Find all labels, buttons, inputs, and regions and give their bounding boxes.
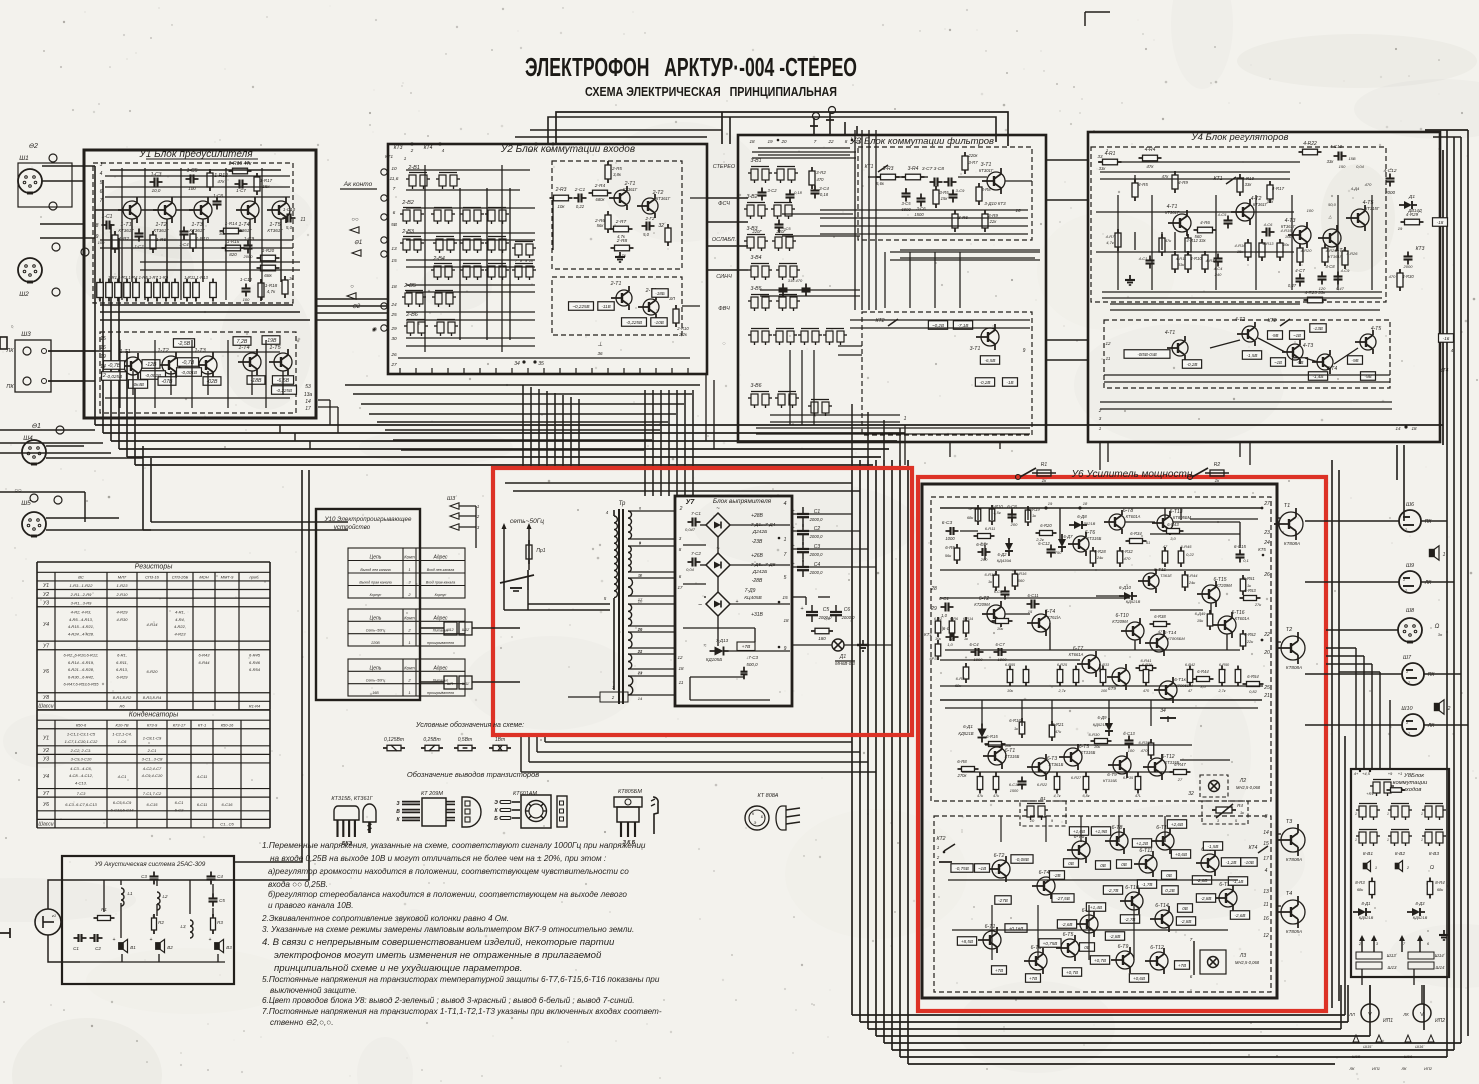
svg-text:электрофонов могут иметь из: электрофонов могут иметь изменения не от… — [274, 950, 602, 961]
capacitor 1-C5 — [189, 175, 191, 184]
svg-text:С3: С3 — [141, 874, 147, 879]
resistor 8-R3 — [1369, 882, 1375, 895]
svg-text:3-Д10 КТ3: 3-Д10 КТ3 — [984, 201, 1006, 206]
svg-text:КД439А: КД439А — [997, 558, 1012, 563]
svg-text:6-С12: 6-С12 — [1038, 541, 1050, 546]
wire top bus 3 — [515, 136, 707, 138]
wire drop vertical 4 — [546, 391, 548, 468]
svg-text:+: + — [989, 655, 992, 660]
svg-text:1-С5: 1-С5 — [187, 168, 198, 174]
resistor 4-R11 — [1172, 255, 1178, 269]
U2 left pin circles — [381, 169, 387, 175]
capacitor 2-C2 — [645, 222, 647, 231]
svg-text:входа ○○ 0,25В.: входа ○○ 0,25В. — [268, 880, 328, 889]
svg-text:6-Д8: 6-Д8 — [1077, 514, 1087, 519]
resistor 6-R16 — [1012, 574, 1018, 586]
wire drop vertical 2 — [530, 387, 532, 468]
svg-text:1Вт: 1Вт — [495, 737, 505, 743]
svg-text:6-R14: 6-R14 — [963, 617, 973, 621]
svg-text:У4: У4 — [43, 622, 49, 628]
svg-text:1-С7: 1-С7 — [236, 188, 246, 193]
svg-text:16В: 16В — [372, 691, 379, 695]
svg-text:~1В: ~1В — [1274, 360, 1282, 365]
svg-text:32: 32 — [1188, 791, 1194, 797]
transistor 6-T6 — [1073, 536, 1089, 552]
svg-text:4,7к: 4,7к — [1053, 794, 1060, 798]
speaker B1 — [119, 943, 123, 950]
svg-text:6-Д7: 6-Д7 — [1063, 534, 1073, 539]
resistor 6-R13 — [993, 575, 999, 587]
rectifier bridge 7-D5..7-D8 — [706, 553, 730, 577]
svg-text:1: 1 — [1403, 516, 1405, 521]
svg-text:КТ361Г: КТ361Г — [656, 196, 671, 201]
svg-text:+7В: +7В — [995, 968, 1003, 973]
svg-text:6Р4: 6Р4 — [968, 506, 976, 511]
svg-text:+: + — [113, 937, 116, 943]
svg-text:0,22: 0,22 — [1186, 552, 1195, 557]
resistor 3-R6 — [952, 214, 958, 228]
svg-text:Блок выпрямителя: Блок выпрямителя — [713, 498, 772, 505]
transistor 6-T15 — [1202, 585, 1220, 603]
svg-text:R2: R2 — [1214, 462, 1221, 468]
transistor 6-Т9 protection — [1116, 951, 1134, 969]
U6 wire mesh — [1190, 518, 1258, 520]
transistor 6-Т16 protection — [1219, 889, 1237, 907]
block U4 dashed lower — [1104, 320, 1390, 388]
capacitor 1-C12 — [242, 287, 251, 289]
svg-text:14: 14 — [100, 364, 106, 370]
svg-text:КТ2: КТ2 — [936, 836, 945, 842]
capacitor 4-C1 — [1146, 259, 1155, 261]
capacitor 4-C12 — [1386, 177, 1395, 179]
svg-text:6-С2: 6-С2 — [175, 807, 184, 812]
svg-text:6,8к: 6,8к — [1082, 794, 1089, 798]
svg-text:0,2В: 0,2В — [1165, 888, 1174, 893]
wire top bus 2 — [548, 117, 996, 144]
U9 wire top — [48, 880, 234, 909]
voltage box -0,225В -11В — [569, 302, 594, 311]
svg-text:1-R2: 1-R2 — [119, 236, 130, 242]
transistor 6-T1 — [988, 747, 1006, 765]
svg-text:-0,08В: -0,08В — [1015, 857, 1029, 862]
svg-text:5,6к: 5,6к — [876, 181, 885, 186]
svg-text:Конт: Конт — [404, 555, 415, 560]
svg-text:Ш6: Ш6 — [1406, 502, 1415, 508]
wire U2-U3 link 3 — [707, 245, 748, 247]
svg-text:34: 34 — [514, 361, 520, 367]
svg-text:2-В3: 2-В3 — [401, 229, 415, 235]
wire Sh4 Sh5 to U10 — [143, 529, 348, 531]
wire U3-U4 link 4 — [1046, 359, 1088, 361]
svg-text:С5: С5 — [219, 898, 225, 903]
svg-text:6-R44: 6-R44 — [1197, 669, 1209, 674]
wire mid bus 5 — [127, 456, 881, 458]
svg-text:22: 22 — [827, 139, 834, 144]
svg-text:6-R22: 6-R22 — [1037, 783, 1048, 787]
wire center vertical 3 — [660, 390, 662, 496]
svg-text:Э: Э — [754, 821, 757, 825]
svg-text:14: 14 — [1263, 830, 1269, 836]
resistor 1-R12 — [207, 173, 213, 187]
wire mid verticals up — [851, 404, 853, 460]
svg-text:6-Т4: 6-Т4 — [1039, 870, 1050, 876]
svg-text:У6: У6 — [43, 669, 49, 675]
svg-text:1: 1 — [1406, 669, 1408, 674]
svg-text:10: 10 — [391, 166, 397, 172]
transistor 6-Т6 protection — [1072, 841, 1090, 859]
svg-text:17: 17 — [546, 148, 552, 153]
wire left bus vertical 6 — [134, 381, 136, 465]
svg-text:и правого канала 10В.: и правого канала 10В. — [268, 901, 354, 910]
svg-text:240: 240 — [1214, 272, 1222, 277]
svg-text:0В: 0В — [1068, 861, 1074, 866]
capacitor 4-C6 — [1265, 228, 1267, 237]
wire left bus vertical 2 — [102, 180, 104, 433]
svg-text:4-С8: 4-С8 — [1325, 264, 1335, 269]
wire connector lead 10 — [46, 529, 151, 531]
wire speaker feed 1 — [234, 470, 302, 862]
svg-text:2-R3: 2-R3 — [555, 187, 567, 193]
svg-text:16: 16 — [527, 148, 533, 153]
U6 mid resistor row — [1007, 670, 1013, 683]
inductor L1 — [121, 888, 124, 906]
resistor 2-R4 — [593, 190, 608, 196]
svg-text:Цепь: Цепь — [370, 555, 382, 561]
svg-text:ственно ⊖2,○,○.: ственно ⊖2,○,○. — [270, 1018, 334, 1027]
svg-text:1-С10: 1-С10 — [283, 207, 296, 212]
svg-text:6-R47: 6-R47 — [1174, 762, 1186, 767]
wire stub Sh7 — [1424, 673, 1461, 675]
svg-text:КТ805А: КТ805А — [1286, 929, 1302, 934]
wire U2 loop 1 — [345, 384, 700, 386]
svg-text:6-R30: 6-R30 — [1089, 732, 1101, 737]
switch 3-B row — [751, 331, 758, 342]
resistor 3-R8 — [976, 187, 982, 201]
svg-text:470: 470 — [1124, 556, 1131, 561]
voltage box -0,002В — [141, 371, 166, 380]
voltage box -18Б — [652, 289, 668, 298]
left edge mark 2 — [0, 932, 10, 934]
svg-text:Адрес: Адрес — [432, 555, 448, 561]
svg-text:Ш7: Ш7 — [1403, 655, 1412, 661]
voltage box -0,2В -1В — [975, 378, 994, 387]
wire under-red1 drop 4 — [520, 735, 522, 772]
svg-text:27к: 27к — [1254, 602, 1262, 607]
wire U2-U3 drop 2 — [713, 380, 715, 449]
voltage box -6,5В(U3) — [980, 356, 999, 365]
svg-text:КТ301Г: КТ301Г — [979, 168, 994, 173]
svg-text:3,8к: 3,8к — [613, 172, 622, 177]
svg-text:1-R10: 1-R10 — [195, 236, 208, 242]
svg-text:12: 12 — [677, 655, 683, 660]
svg-text:3-С4: 3-С4 — [819, 186, 829, 191]
svg-text:1: 1 — [1403, 577, 1405, 582]
transistor 6-Т7 protection — [1080, 915, 1098, 933]
svg-text:К73-9: К73-9 — [147, 722, 158, 727]
svg-text:1-R14: 1-R14 — [225, 221, 238, 226]
svg-text:В2: В2 — [167, 945, 173, 950]
svg-text:Т361Е: Т361Е — [1160, 573, 1172, 578]
capacitor C4 2000,0 — [797, 566, 809, 568]
svg-text:6-Т11: 6-Т11 — [1139, 848, 1152, 854]
svg-text:-0,75В: -0,75В — [955, 866, 969, 871]
U8 speakers — [1363, 863, 1367, 868]
transistor 1-Т5 (meas) — [274, 353, 292, 371]
svg-text:0,18: 0,18 — [794, 190, 803, 195]
svg-text:2-В5: 2-В5 — [403, 283, 417, 289]
svg-text:проигрывателя: проигрывателя — [427, 641, 454, 645]
svg-text:⊖1: ⊖1 — [354, 240, 362, 246]
capacitor C1 2000,0 — [797, 513, 809, 515]
svg-text:○: ○ — [350, 284, 354, 290]
wire bottom loop 8 — [908, 1063, 1335, 1065]
svg-text:0В: 0В — [1182, 906, 1188, 911]
svg-text:33: 33 — [1097, 154, 1103, 159]
svg-text:Д242Б: Д242Б — [752, 569, 768, 575]
svg-text:470: 470 — [817, 177, 825, 182]
svg-text:1: 1 — [408, 640, 410, 645]
svg-text:7: 7 — [814, 139, 817, 144]
speaker B3 — [215, 943, 219, 950]
svg-text:+7В: +7В — [1178, 963, 1186, 968]
top right corner marks — [1085, 11, 1110, 13]
svg-text:КТ361Г: КТ361Г — [1328, 254, 1342, 259]
svg-text:6: 6 — [1190, 974, 1193, 979]
svg-text:0В: 0В — [1100, 863, 1106, 868]
wire red1-right vertical 6 — [891, 460, 893, 1050]
svg-text:У1 Блок предусилителя: У1 Блок предусилителя — [138, 149, 253, 160]
switch 2-В4 — [434, 266, 441, 277]
wire bottom loop vertical 5 — [1423, 985, 1425, 1030]
wire connector lead 7 — [46, 445, 84, 447]
svg-text:33к: 33к — [1267, 199, 1275, 204]
U6 mid-bottom rail — [940, 699, 1262, 701]
meter IP2 — [1413, 1004, 1431, 1022]
resistor 4-R17 — [1267, 185, 1273, 199]
svg-text:470: 470 — [1389, 274, 1396, 279]
transistor 6-Т8 protection — [1110, 832, 1128, 850]
svg-text:2-R10: 2-R10 — [116, 592, 129, 597]
connector Ш6 — [1399, 510, 1421, 532]
capacitor C5(U9) — [209, 897, 218, 899]
capacitor 3-C6 — [917, 197, 926, 199]
wire feed Sh10 — [1305, 724, 1402, 726]
svg-text:2.Эквивалентное сопротивление: 2.Эквивалентное сопротивление звуковой к… — [261, 914, 509, 923]
svg-text:2-В4: 2-В4 — [432, 256, 445, 262]
svg-text:68к: 68к — [1357, 887, 1364, 892]
svg-text:22: 22 — [637, 649, 643, 654]
svg-text:КД521В: КД521В — [1359, 915, 1374, 920]
wire U3-U4 link 2 — [1046, 199, 1088, 201]
pinout KT808 drawing — [745, 806, 769, 830]
svg-text:21: 21 — [1263, 693, 1270, 699]
wire U8 horizontal feeds — [1326, 647, 1356, 649]
svg-text:47L: 47L — [1135, 794, 1141, 798]
resistor 6-R51 — [1240, 579, 1246, 591]
svg-text:КЦ405В: КЦ405В — [744, 595, 762, 601]
svg-text:50,0: 50,0 — [1328, 202, 1337, 207]
svg-text:КТ 808А: КТ 808А — [758, 793, 779, 799]
resistor 4-R12 — [1185, 238, 1191, 252]
svg-text:27: 27 — [1177, 777, 1183, 782]
svg-text:на входе 0,25В на выходе 10В: на входе 0,25В на выходе 10В и могут отл… — [270, 854, 606, 863]
transistor 6-Т15 protection — [1201, 854, 1219, 872]
svg-text:3-С9,3-С10: 3-С9,3-С10 — [71, 757, 92, 762]
svg-text:4-R7: 4-R7 — [1106, 234, 1115, 239]
resistor 1-R17 — [254, 177, 260, 191]
svg-text:200: 200 — [1010, 522, 1018, 527]
svg-text:Ш2: Ш2 — [19, 291, 29, 298]
resistor 6-R18 — [1019, 722, 1025, 734]
transistor 6-Т10 protection — [1125, 892, 1143, 910]
capacitor 1-C7 — [238, 180, 240, 189]
svg-text:0,1: 0,1 — [1243, 558, 1249, 563]
svg-text:Ш1: Ш1 — [19, 155, 29, 162]
svg-text:0,04: 0,04 — [1356, 164, 1365, 169]
svg-text:1-С3: 1-С3 — [151, 172, 162, 178]
svg-text:2000,0: 2000,0 — [809, 534, 823, 539]
voltage box -2,5В — [173, 339, 194, 348]
U6 wire mesh 2 — [1150, 533, 1240, 535]
svg-text:8-В2: 8-В2 — [1395, 851, 1405, 857]
svg-text:200: 200 — [980, 557, 988, 562]
switch 3-В5 — [751, 297, 758, 308]
wire under-red1 1 — [545, 741, 852, 743]
wire red1-right vertical 4 — [875, 460, 877, 1036]
svg-text:4-R29: 4-R29 — [1406, 212, 1419, 217]
switch aux group — [515, 244, 522, 255]
transistor 1-Т1 (meas) — [124, 357, 142, 375]
svg-text:2-С1: 2-С1 — [147, 748, 157, 753]
svg-text:24: 24 — [1263, 540, 1270, 546]
svg-text:МН2,5-0,068: МН2,5-0,068 — [1236, 785, 1261, 790]
transistor 6-T11 — [1143, 573, 1159, 589]
svg-text:19: 19 — [767, 139, 773, 144]
resistor 1-R20 — [261, 255, 276, 261]
wire U3 bottom drops — [904, 442, 906, 465]
capacitor 4-C7 — [1296, 277, 1305, 279]
svg-text:3-С1...3-С8: 3-С1...3-С8 — [142, 757, 163, 762]
svg-text:Условные обозначения на схеме:: Условные обозначения на схеме: — [415, 721, 524, 729]
svg-text:-0,001В: -0,001В — [181, 370, 197, 375]
svg-text:10: 10 — [1030, 818, 1035, 823]
svg-text:18: 18 — [1411, 426, 1417, 431]
diode 6-D9 — [1105, 718, 1113, 736]
voltage box 7,2В — [233, 337, 251, 346]
svg-text:19: 19 — [1398, 226, 1403, 231]
svg-text:С1: С1 — [73, 946, 79, 951]
svg-text:25: 25 — [1263, 685, 1270, 691]
wire under-red1 drop 1 — [544, 735, 546, 742]
svg-text:1.Переменные напряжения, указ: 1.Переменные напряжения, указанные на сх… — [262, 841, 646, 850]
svg-text:13а: 13а — [304, 392, 313, 398]
svg-text:11: 11 — [1263, 902, 1268, 908]
svg-text:1-R20: 1-R20 — [262, 248, 275, 253]
svg-text:6Т9: 6Т9 — [1108, 686, 1116, 691]
svg-text:1: 1 — [1387, 838, 1389, 842]
wire left bus vertical 4 — [118, 238, 120, 449]
svg-text:6-С3: 6-С3 — [942, 520, 953, 526]
svg-text:47: 47 — [1163, 544, 1168, 549]
U10 table power16 — [348, 659, 465, 696]
svg-text:+2,6В: +2,6В — [1171, 822, 1183, 827]
svg-text:-18: -18 — [1437, 220, 1444, 225]
svg-text:-9В: -9В — [1272, 333, 1279, 338]
svg-text:19: 19 — [100, 354, 106, 360]
svg-text:18: 18 — [749, 139, 755, 144]
resistor 6-R11 — [978, 534, 991, 539]
resistor 4-R30 — [1397, 273, 1403, 287]
transistor 4-T4 — [1323, 229, 1341, 247]
svg-text:6-R25: 6-R25 — [1057, 663, 1068, 667]
svg-text:22к: 22к — [989, 219, 998, 224]
svg-text:6-С9: 6-С9 — [994, 590, 1003, 594]
svg-text:ИП2: ИП2 — [1435, 1018, 1445, 1024]
rectifier bridge 7-D1..7-D4 — [706, 513, 730, 537]
svg-text:-2В: -2В — [1053, 873, 1060, 878]
transistor 4-T5 — [1351, 209, 1369, 227]
switch 2-В6 — [407, 322, 414, 333]
svg-text:−: − — [698, 602, 702, 609]
U7 inner wires — [700, 524, 706, 526]
svg-text:8-R4: 8-R4 — [1435, 880, 1445, 885]
svg-text:47: 47 — [1158, 629, 1163, 634]
svg-text:Ш9: Ш9 — [1406, 563, 1414, 569]
capacitor 1-C8 — [213, 200, 222, 202]
wire connector lead 2 — [42, 180, 84, 182]
wire red2 right vertical 1 — [1331, 460, 1333, 1008]
wire bottom loop 6 — [892, 1049, 1454, 1051]
svg-text:Пр1: Пр1 — [536, 548, 545, 554]
svg-text:6-С12,6-С14: 6-С12,6-С14 — [111, 807, 135, 812]
svg-text:7-С1: 7-С1 — [691, 511, 701, 516]
svg-text:1-R16 47к: 1-R16 47к — [229, 161, 253, 167]
svg-text:9: 9 — [1023, 348, 1026, 354]
resistor 4-R4 — [1143, 155, 1158, 161]
svg-text:г1: г1 — [52, 913, 56, 918]
svg-text:6-С13: 6-С13 — [1123, 731, 1135, 736]
transistor 6-T13 — [1157, 515, 1173, 531]
svg-text:24к: 24к — [1096, 555, 1104, 560]
svg-text:У8: У8 — [43, 695, 49, 701]
svg-text:У9 Акустическая система 25АС-: У9 Акустическая система 25АС-309 — [94, 861, 206, 868]
resistor 3-R9 — [982, 214, 988, 228]
wire mid bus 6 — [135, 464, 873, 466]
svg-text:-1,5В: -1,5В — [1208, 844, 1219, 849]
resistor 4-R13 — [1259, 243, 1265, 257]
svg-text:Цепь: Цепь — [370, 665, 382, 671]
svg-text:КТ601АМ: КТ601АМ — [513, 791, 537, 797]
svg-text:6-Т8: 6-Т8 — [1112, 825, 1123, 831]
voltage box -0,15В -0,3В — [1124, 350, 1170, 359]
svg-text:0,047: 0,047 — [685, 527, 696, 532]
svg-text:R2: R2 — [158, 920, 164, 925]
lamp L3 — [1193, 941, 1195, 975]
svg-text:МОН: МОН — [199, 575, 208, 580]
svg-text:ОСЛАБЛ.: ОСЛАБЛ. — [712, 237, 736, 243]
svg-text:6-R8: 6-R8 — [957, 759, 967, 764]
svg-text:КТ4: КТ4 — [1249, 845, 1258, 851]
svg-text:3-В5: 3-В5 — [751, 286, 762, 292]
svg-text:2-R8: 2-R8 — [616, 238, 628, 244]
svg-text:6-R18: 6-R18 — [1009, 718, 1021, 723]
svg-text:~1В: ~1В — [978, 866, 986, 871]
svg-text:6-R10: 6-R10 — [991, 504, 1003, 509]
svg-text:L3: L3 — [180, 924, 186, 929]
wire bottom loop 1 — [852, 1014, 1345, 1016]
resistor 6-R28 — [1090, 551, 1096, 563]
svg-text:6-Т9: 6-Т9 — [1118, 944, 1129, 950]
